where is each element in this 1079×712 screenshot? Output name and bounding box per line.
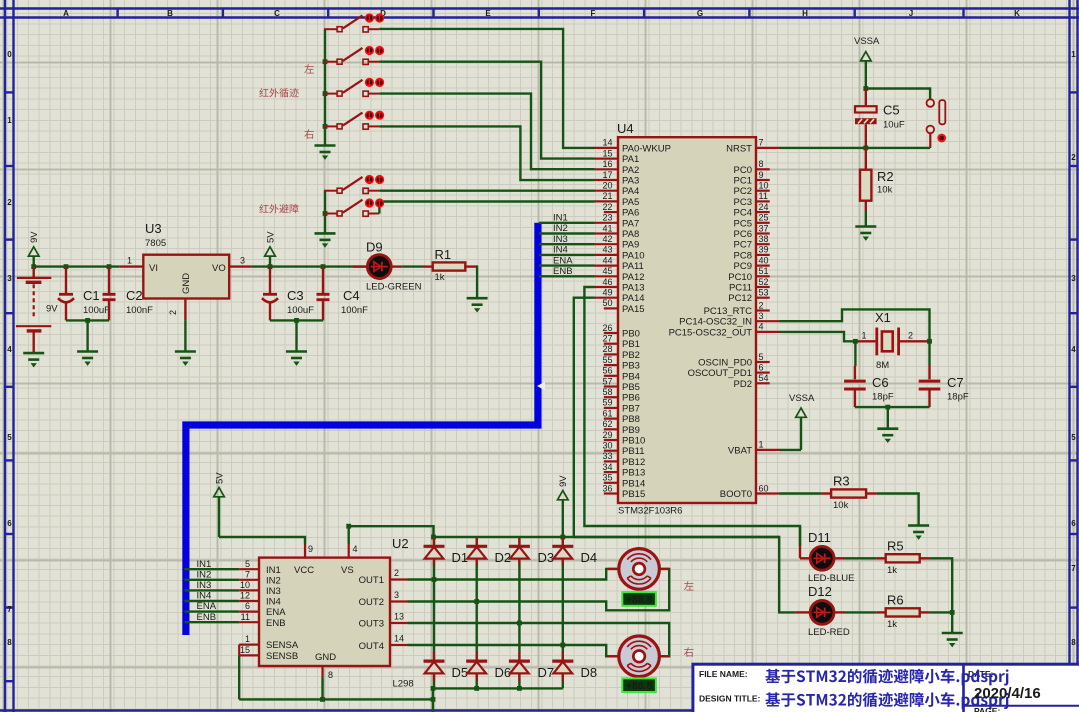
pin 3 OUT2: [390, 590, 408, 602]
svg-text:9: 9: [759, 170, 764, 180]
svg-text:C2: C2: [126, 288, 143, 303]
svg-text:35: 35: [602, 473, 612, 483]
pin 3 U3: [229, 265, 251, 267]
node xtal gnd: [885, 405, 890, 410]
svg-text:1: 1: [127, 256, 132, 266]
toggle dots SW2: [365, 46, 384, 55]
wire PA14 to rail: [574, 298, 595, 537]
svg-text:57: 57: [602, 376, 612, 386]
svg-text:23: 23: [602, 213, 612, 223]
wire VSSA to VBAT: [780, 449, 802, 451]
pin 28 PB2: [602, 344, 639, 361]
diode D1: [424, 537, 469, 566]
wire SENS to bottom rail: [238, 655, 240, 699]
wire PA14 net to D12: [574, 537, 796, 612]
svg-text:IN2: IN2: [266, 575, 281, 586]
svg-text:27: 27: [602, 334, 612, 344]
svg-text:D12: D12: [808, 584, 832, 599]
capacitor C3 100uF: [262, 267, 314, 321]
pin 1 U3: [120, 265, 144, 267]
pin 4 PC15-OSC32_OUT: [669, 322, 780, 339]
node rail-D7: [517, 686, 522, 691]
svg-text:G: G: [697, 9, 703, 18]
svg-text:PB15: PB15: [622, 489, 645, 500]
svg-text:1k: 1k: [887, 619, 897, 630]
wire D12 to R6: [845, 611, 877, 613]
wire OUT3 to motor2 right: [408, 623, 670, 656]
svg-text:PB4: PB4: [622, 371, 640, 382]
svg-text:2: 2: [908, 331, 913, 341]
pin 30 PB11: [602, 441, 644, 458]
svg-text:6: 6: [245, 601, 250, 611]
svg-text:10: 10: [240, 580, 250, 590]
diode D5: [424, 652, 469, 681]
wire down to ground: [86, 320, 88, 351]
pin 1 VBAT: [728, 440, 780, 457]
ground under rail 1: [315, 146, 336, 160]
node rail-9V: [560, 535, 565, 540]
node rail-C4: [321, 264, 326, 269]
pin 58 PB6: [602, 387, 639, 404]
wire blue bus: [186, 223, 538, 635]
pin 41 PA8: [595, 223, 640, 240]
svg-text:IN1: IN1: [266, 565, 281, 576]
pin 24 PC4: [734, 202, 770, 219]
svg-text:3: 3: [394, 590, 399, 600]
node rail-link lower: [431, 697, 436, 702]
svg-text:U2: U2: [392, 536, 409, 551]
svg-text:SENSA: SENSA: [266, 640, 299, 651]
chip labels U2: [266, 565, 384, 663]
svg-text:5V: 5V: [265, 231, 276, 243]
svg-text:3: 3: [7, 274, 12, 283]
svg-text:PA13: PA13: [622, 283, 645, 294]
switch SW1: [324, 15, 379, 32]
svg-text:IN4: IN4: [553, 245, 568, 256]
svg-text:OUT3: OUT3: [359, 619, 384, 630]
marker arrow on blue wire: [537, 382, 545, 391]
svg-text:PB1: PB1: [622, 339, 640, 350]
svg-text:10: 10: [759, 181, 769, 191]
wire 9V rail: [34, 265, 120, 267]
wire VO rail: [252, 265, 366, 267]
svg-text:PA5: PA5: [622, 197, 639, 208]
svg-text:VSSA: VSSA: [854, 36, 880, 47]
pin 51 PC10: [728, 266, 769, 283]
svg-text:D3: D3: [538, 550, 555, 565]
svg-text:PC6: PC6: [734, 229, 752, 240]
svg-text:6: 6: [1071, 519, 1076, 528]
wire U3 gnd: [184, 320, 186, 351]
svg-text:58: 58: [602, 387, 612, 397]
svg-text:1: 1: [759, 440, 764, 450]
svg-text:PA12: PA12: [622, 272, 645, 283]
driver U2 body: [259, 536, 414, 690]
wire 5V to VCC pin 9: [219, 537, 305, 544]
wire SW5 to PA4: [379, 189, 594, 191]
svg-text:42: 42: [602, 234, 612, 244]
svg-text:1: 1: [862, 331, 867, 341]
pin 2 U3: [184, 299, 186, 321]
svg-text:C3: C3: [287, 288, 304, 303]
svg-text:10uF: 10uF: [883, 120, 905, 131]
capacitor C7 18pF: [919, 341, 969, 407]
svg-text:10k: 10k: [833, 500, 849, 511]
svg-text:VI: VI: [149, 263, 158, 274]
wire IN1 net: [184, 568, 239, 570]
svg-text:7805: 7805: [145, 238, 166, 249]
pin 12 IN4: [239, 600, 259, 602]
svg-text:PA6: PA6: [622, 208, 639, 219]
svg-text:PB11: PB11: [622, 446, 645, 457]
svg-text:51: 51: [759, 266, 769, 276]
node OUT3-D3: [517, 621, 522, 626]
svg-text:1: 1: [245, 634, 250, 644]
pin 42 PA9: [595, 234, 640, 251]
node rail1-sw2: [323, 59, 328, 64]
pin 6 OSCOUT_PD1: [688, 362, 770, 379]
svg-text:PA1: PA1: [622, 154, 639, 165]
wire down to ground: [295, 320, 297, 351]
battery BT1 9V: [16, 267, 58, 353]
ground LEDs: [942, 633, 963, 647]
svg-text:5: 5: [245, 559, 250, 569]
svg-text:9V: 9V: [46, 304, 58, 315]
svg-text:L298: L298: [393, 679, 414, 690]
svg-text:D1: D1: [452, 550, 469, 565]
svg-text:GND: GND: [315, 652, 336, 663]
pin 11 ENB: [239, 621, 259, 623]
svg-text:9V: 9V: [29, 231, 40, 243]
node rail-battery: [31, 264, 36, 269]
wire C6-C7 bottom: [855, 406, 930, 408]
pin 27 PB1: [602, 334, 639, 351]
svg-text:PC4: PC4: [734, 208, 752, 219]
display M2 rpm: [622, 678, 656, 692]
diode column D1/D5: [433, 537, 435, 688]
pin 29 PB10: [602, 430, 645, 447]
power VSSA top: [854, 36, 880, 89]
svg-text:PB9: PB9: [622, 425, 640, 436]
svg-text:29: 29: [602, 430, 612, 440]
pin 52 PC11: [729, 277, 770, 294]
wire D9 to R1: [402, 265, 423, 267]
svg-text:FILE NAME:: FILE NAME:: [699, 669, 748, 679]
pin 15 SENSB: [239, 645, 259, 655]
svg-text:PA0-WKUP: PA0-WKUP: [622, 143, 671, 154]
wire OUT4 to motor2 left: [408, 645, 618, 656]
svg-text:43: 43: [602, 245, 612, 255]
svg-text:12: 12: [240, 591, 250, 601]
power 5V for VCC: [214, 472, 226, 537]
pin 25 PC5: [734, 213, 770, 230]
svg-text:55: 55: [602, 355, 612, 365]
svg-text:56: 56: [602, 366, 612, 376]
pin 14 OUT4: [390, 634, 408, 646]
svg-text:PB3: PB3: [622, 361, 640, 372]
power 9V motor: [558, 475, 570, 537]
label infrared tracking: [259, 88, 298, 97]
display M1 rpm: [622, 592, 656, 606]
svg-text:37: 37: [759, 223, 769, 233]
svg-text:14: 14: [394, 634, 404, 644]
svg-text:IN1: IN1: [197, 559, 212, 570]
node rail-D6: [474, 686, 479, 691]
wire switch rail 1: [324, 29, 326, 145]
node rail1-sw4: [323, 124, 328, 129]
svg-text:R6: R6: [887, 593, 904, 608]
svg-text:53: 53: [759, 288, 769, 298]
svg-text:LED-BLUE: LED-BLUE: [808, 573, 854, 584]
pin 38 PC7: [734, 234, 770, 251]
svg-text:B: B: [167, 9, 173, 18]
svg-text:7: 7: [1071, 564, 1076, 573]
svg-text:54: 54: [759, 373, 769, 383]
pin 56 PB4: [602, 366, 639, 383]
svg-text:R1: R1: [435, 247, 452, 262]
svg-text:24: 24: [759, 202, 769, 212]
ground under C1/C2: [77, 352, 98, 366]
node rail-C2: [107, 264, 112, 269]
wire VS top rail: [434, 536, 780, 538]
wire SW6 to PA5: [379, 202, 594, 214]
node rail-link upper: [431, 686, 436, 691]
svg-text:OUT2: OUT2: [359, 597, 384, 608]
wire IN2 to PA8: [539, 232, 595, 234]
pin 59 PB7: [602, 398, 639, 415]
capacitor C2 100nF: [103, 267, 154, 321]
svg-text:IN3: IN3: [266, 586, 281, 597]
svg-text:61: 61: [602, 408, 612, 418]
pin 10 PC2: [734, 181, 770, 198]
svg-text:18pF: 18pF: [872, 392, 894, 403]
svg-text:ENA: ENA: [266, 607, 286, 618]
svg-text:OSCOUT_PD1: OSCOUT_PD1: [688, 368, 752, 379]
node rail-C3: [268, 264, 273, 269]
svg-text:VSSA: VSSA: [789, 393, 815, 404]
svg-text:59: 59: [602, 398, 612, 408]
svg-text:9V: 9V: [558, 475, 569, 487]
svg-text:PC8: PC8: [734, 250, 752, 261]
svg-text:5V: 5V: [214, 472, 225, 484]
svg-text:PB0: PB0: [622, 329, 640, 340]
border letters: [63, 9, 1020, 18]
wire R3 to ground: [877, 494, 919, 526]
pin 15 PA1: [595, 148, 640, 165]
svg-text:50: 50: [602, 298, 612, 308]
ground under rail 2: [315, 233, 336, 247]
diode D7: [509, 652, 554, 681]
crystal X1 8M: [855, 310, 929, 371]
svg-text:7: 7: [245, 569, 250, 579]
switch SW3: [324, 80, 379, 97]
pin 44 PA11: [595, 255, 644, 272]
wire SW2 to PA1: [379, 62, 594, 159]
diode column D3/D7: [518, 537, 520, 688]
svg-text:2: 2: [7, 198, 12, 207]
svg-text:H: H: [802, 9, 808, 18]
pin 60 BOOT0: [720, 483, 780, 500]
svg-text:PB2: PB2: [622, 350, 640, 361]
pin 54 PD2: [734, 373, 770, 390]
diode column D2/D6: [476, 537, 478, 688]
wire R6 to node: [929, 611, 952, 613]
svg-text:4: 4: [759, 322, 764, 332]
svg-text:IN3: IN3: [197, 580, 212, 591]
wire IN1 to PA7: [539, 222, 595, 224]
svg-text:25: 25: [759, 213, 769, 223]
svg-text:K: K: [1014, 9, 1020, 18]
pin 17 PA3: [595, 170, 640, 187]
svg-text:7: 7: [7, 605, 12, 614]
node rail-C1: [64, 264, 69, 269]
ground under R2: [855, 227, 876, 241]
pin 3 PC14-OSC32_IN: [679, 311, 779, 328]
wire OUT1 to motor left: [408, 569, 618, 580]
power 5V: [265, 231, 277, 267]
svg-text:D9: D9: [366, 240, 383, 255]
svg-text:15: 15: [602, 148, 612, 158]
pin 1 SENSA: [239, 634, 259, 644]
switch SW4: [324, 113, 379, 130]
svg-text:36: 36: [602, 483, 612, 493]
svg-text:U4: U4: [617, 121, 634, 136]
svg-text:R2: R2: [877, 169, 894, 184]
pin 21 PA5: [595, 191, 640, 208]
pin 2 OUT1: [390, 568, 408, 580]
wire IN4 to PA10: [539, 254, 595, 256]
wire PA13 net to D11: [799, 526, 801, 545]
svg-text:PC10: PC10: [728, 272, 752, 283]
svg-text:8: 8: [7, 638, 12, 647]
svg-text:PC12: PC12: [728, 293, 752, 304]
wire PA13 to LED D11: [584, 287, 800, 546]
svg-text:PA3: PA3: [622, 176, 639, 187]
wire GND pin to rail: [321, 678, 323, 699]
node X1 pin2 / C7: [927, 339, 932, 344]
wire rail link down: [432, 688, 434, 712]
ground under C3/C4: [286, 352, 307, 366]
svg-text:PC1: PC1: [734, 176, 752, 187]
switch SW2: [324, 48, 379, 65]
svg-text:VBAT: VBAT: [728, 445, 752, 456]
node rail-gnd8: [320, 697, 325, 702]
pin 20 PA4: [595, 181, 640, 198]
svg-text:5: 5: [7, 433, 12, 442]
svg-text:VS: VS: [341, 565, 354, 576]
pin 5 OSCIN_PD0: [698, 352, 770, 369]
svg-text:PC5: PC5: [734, 218, 752, 229]
svg-text:D2: D2: [495, 550, 512, 565]
wire SW4 to PA3: [379, 126, 594, 180]
resistor R1 1k: [423, 247, 477, 283]
svg-text:40: 40: [759, 255, 769, 265]
svg-text:33: 33: [602, 451, 612, 461]
svg-text:1: 1: [7, 116, 12, 125]
switch SW6: [324, 200, 379, 217]
capacitor C1 100uF: [58, 267, 110, 321]
wire D11 to R5: [845, 557, 877, 559]
svg-text:PC0: PC0: [734, 165, 752, 176]
svg-text:15: 15: [240, 645, 250, 655]
node OUT4-D4: [560, 643, 565, 648]
capacitor C5 10uF: [855, 89, 905, 148]
wire C1-C2 bottom: [66, 319, 109, 321]
pin 11 PC3: [734, 191, 770, 208]
ground under U3: [175, 352, 196, 366]
resistor R6 1k: [877, 593, 930, 631]
svg-text:C4: C4: [343, 288, 360, 303]
svg-text:PA8: PA8: [622, 229, 639, 240]
svg-text:D4: D4: [581, 550, 598, 565]
diode D3: [509, 537, 554, 566]
pin 2 PC13_RTC: [704, 300, 770, 317]
svg-text:PA15: PA15: [622, 304, 645, 315]
svg-text:R5: R5: [887, 539, 904, 554]
svg-text:22: 22: [602, 202, 612, 212]
svg-text:4: 4: [1071, 345, 1076, 354]
pin 34 PB13: [602, 462, 645, 479]
svg-text:VCC: VCC: [294, 565, 314, 576]
LED D12 LED-RED: [796, 584, 850, 638]
svg-text:14: 14: [602, 138, 612, 148]
svg-text:D5: D5: [452, 665, 469, 680]
node NRST-C5: [863, 146, 868, 151]
node OUT1-D1: [432, 577, 437, 582]
diode column D4/D8: [562, 537, 564, 688]
svg-text:PB13: PB13: [622, 468, 645, 479]
node C3C4-gnd: [294, 318, 299, 323]
capacitor C6 18pF: [844, 341, 894, 407]
motor M2 right wheel: [608, 636, 670, 677]
svg-text:IN2: IN2: [553, 223, 568, 234]
ground under crystal: [877, 429, 898, 443]
toggle dot button: [937, 134, 946, 143]
svg-text:5: 5: [759, 352, 764, 362]
svg-text:11: 11: [759, 191, 768, 201]
svg-text:IN2: IN2: [197, 569, 212, 580]
pin 7 NRST: [726, 138, 779, 155]
wire OUT2 to motor right: [408, 569, 670, 610]
diode D2: [466, 537, 511, 566]
pin 43 PA10: [595, 245, 645, 262]
svg-text:PC13_RTC: PC13_RTC: [704, 306, 753, 317]
svg-text:C1: C1: [83, 288, 100, 303]
svg-text:11: 11: [241, 612, 250, 622]
svg-text:PC15-OSC32_OUT: PC15-OSC32_OUT: [669, 327, 753, 338]
svg-text:PA2: PA2: [622, 165, 639, 176]
node rail-D1: [431, 535, 436, 540]
ground under battery: [23, 353, 44, 367]
node C1C2-gnd: [85, 318, 90, 323]
svg-text:PC9: PC9: [734, 261, 752, 272]
svg-text:PA7: PA7: [622, 218, 639, 229]
pin 10 IN3: [239, 589, 259, 591]
svg-text:PB8: PB8: [622, 414, 640, 425]
wire to button top: [866, 89, 930, 100]
wire C3-C4 bottom: [270, 319, 323, 321]
toggle dots SW6: [365, 198, 384, 207]
svg-text:F: F: [591, 9, 596, 18]
node VS elbow: [346, 524, 351, 529]
svg-text:PB5: PB5: [622, 382, 640, 393]
pin 50 PA15: [602, 298, 644, 315]
wire IN3 to PA9: [539, 243, 595, 245]
wire R5 down to R6 node: [929, 558, 952, 612]
svg-text:26: 26: [602, 323, 612, 333]
capacitor C4 100nF: [317, 267, 369, 321]
svg-text:PC7: PC7: [734, 240, 752, 251]
